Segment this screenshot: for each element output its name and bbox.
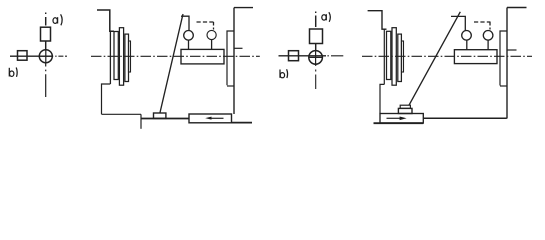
slide bottom thick line bbox=[374, 122, 424, 124]
headstock front face bbox=[109, 31, 111, 84]
label b) bbox=[280, 69, 288, 78]
quill tick right of wall bbox=[507, 49, 517, 51]
chuck bar D bbox=[125, 34, 129, 81]
label a) bbox=[53, 14, 62, 25]
roller circle 2 bbox=[207, 30, 216, 39]
label a) bbox=[322, 12, 331, 22]
label b) bbox=[9, 68, 17, 77]
right wall top line bbox=[234, 7, 253, 9]
node symbol 2 horizontal centerline bbox=[279, 55, 327, 57]
dashed link horizontal bbox=[474, 21, 491, 23]
tailstock inner line bbox=[227, 31, 234, 85]
dashed link vertical bbox=[213, 22, 215, 30]
tailstock join tick bbox=[500, 85, 507, 87]
circle 1 crosshair bbox=[39, 50, 52, 63]
roller circle 2 bbox=[483, 31, 493, 41]
roller 2 stem bbox=[211, 40, 213, 50]
template bar rect bbox=[454, 50, 497, 64]
node symbol 2 vertical centerline bbox=[315, 12, 317, 14]
right wall bbox=[233, 8, 235, 114]
chuck bar C bbox=[392, 28, 396, 85]
follower bracket bbox=[181, 16, 189, 30]
quill tick right of wall bbox=[234, 47, 243, 49]
centerline bbox=[362, 55, 532, 57]
right wall bbox=[506, 8, 508, 119]
tool block top bbox=[400, 105, 410, 108]
chuck bar C bbox=[119, 28, 123, 85]
roller circle 1 bbox=[462, 31, 472, 41]
slide rect bbox=[380, 114, 423, 124]
bed step vertical bbox=[140, 114, 142, 129]
headstock front face bbox=[383, 29, 385, 84]
headstock base step bbox=[380, 84, 384, 113]
tailstock inner line bbox=[500, 31, 507, 86]
follower bracket bbox=[451, 16, 465, 30]
headstock top outline bbox=[97, 10, 114, 31]
chuck bar B bbox=[114, 32, 118, 80]
copier lever diagonal bbox=[409, 12, 460, 105]
right wall top line bbox=[507, 7, 527, 9]
spindle circle 1 bbox=[39, 50, 52, 63]
tailstock join tick bbox=[227, 85, 234, 87]
bed line right of slide bbox=[423, 117, 507, 119]
headstock top outline bbox=[368, 11, 387, 30]
tool block bbox=[154, 113, 166, 118]
spindle circle 2 bbox=[309, 51, 323, 65]
node symbol 1 horizontal centerline bbox=[10, 55, 53, 57]
template bar rect bbox=[181, 49, 224, 64]
node symbol 1 vertical centerline bbox=[45, 13, 47, 15]
centerline bbox=[91, 55, 260, 57]
bed line under headstock bbox=[102, 113, 142, 115]
chuck bar B bbox=[387, 31, 391, 79]
slide rect bbox=[189, 114, 232, 123]
bed bottom line right bbox=[232, 122, 253, 124]
roller circle 1 bbox=[184, 31, 194, 41]
tool rect a (top) bbox=[41, 27, 51, 41]
dashed link horizontal bbox=[197, 21, 214, 23]
feed arrow (right) bbox=[387, 117, 407, 121]
tool square b (left) bbox=[18, 51, 28, 61]
roller 1 stem bbox=[466, 40, 468, 50]
chuck bar D bbox=[398, 34, 402, 81]
dashed link vertical bbox=[489, 22, 491, 30]
chuck bar E bbox=[129, 41, 131, 72]
copier lever diagonal bbox=[160, 14, 183, 113]
tool rect a (top) bbox=[310, 29, 323, 44]
tool block base bbox=[398, 108, 412, 113]
headstock base step bbox=[102, 84, 111, 114]
feed arrow (left) bbox=[205, 117, 223, 120]
roller 2 stem bbox=[487, 40, 489, 50]
roller 1 stem bbox=[188, 40, 190, 49]
circle 2 crosshair bbox=[309, 51, 323, 65]
chuck bar E bbox=[402, 41, 404, 72]
slide top line bbox=[142, 118, 189, 120]
tool square b (left) bbox=[289, 51, 299, 61]
